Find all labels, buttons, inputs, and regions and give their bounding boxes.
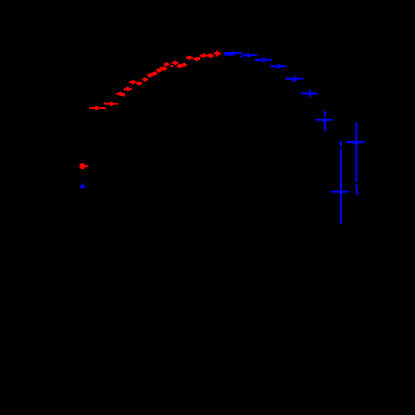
blue point 4 xyxy=(272,64,287,69)
red point 11 xyxy=(161,67,167,71)
blue point 9 xyxy=(346,123,364,182)
red dash b xyxy=(104,102,107,104)
blue point 5 xyxy=(286,76,304,83)
dash 7 (steep, below bar B) xyxy=(356,185,357,196)
red dashed model line (visible dash segments) xyxy=(102,54,213,108)
red point 3 xyxy=(116,92,125,96)
red dash f xyxy=(160,67,163,70)
red point 18 xyxy=(200,53,208,57)
red point 19 xyxy=(207,54,214,58)
red point 13 xyxy=(172,61,179,65)
red point 7 xyxy=(142,77,148,81)
dash 2 xyxy=(240,55,243,57)
dash 3 xyxy=(255,59,260,62)
red point 8 xyxy=(147,73,153,77)
dash 5 xyxy=(286,77,292,80)
blue point 1 xyxy=(224,50,242,55)
red point 17 xyxy=(193,57,200,61)
red point 12 xyxy=(164,62,170,66)
blue point 3 xyxy=(258,57,273,62)
red point 1 xyxy=(89,106,105,110)
red dash e xyxy=(127,88,132,90)
blue dashed model line (visible dash segments) xyxy=(224,54,357,195)
red point 20 xyxy=(214,51,222,57)
red point 6 xyxy=(136,81,143,85)
blue data points with error bars xyxy=(224,50,364,224)
red point 2 xyxy=(106,102,119,106)
red data points with error bars xyxy=(89,51,221,111)
blue point 2 xyxy=(243,52,257,57)
red dash h xyxy=(196,57,201,60)
dash 1 xyxy=(224,53,233,55)
red dash c xyxy=(120,94,125,97)
red point 10 xyxy=(156,68,162,72)
red dash a xyxy=(102,107,107,110)
blue point 6 xyxy=(301,90,318,97)
blue point 8 xyxy=(331,149,349,225)
red dash i xyxy=(201,55,206,58)
red point 15 xyxy=(181,63,187,67)
red dash g xyxy=(170,66,173,67)
blue point 7 xyxy=(316,111,333,131)
red point 5 xyxy=(129,80,137,84)
red point 16 xyxy=(186,56,193,60)
red dash d xyxy=(124,87,129,90)
red point 9 xyxy=(152,71,158,75)
dash 6 (steep, near bar A top) xyxy=(340,141,341,146)
red point 14 xyxy=(177,64,183,68)
dash 4 xyxy=(270,65,274,68)
legend red errorbar sample xyxy=(79,163,88,169)
red dash j xyxy=(208,53,212,56)
legend blue triangle sample xyxy=(79,183,85,188)
